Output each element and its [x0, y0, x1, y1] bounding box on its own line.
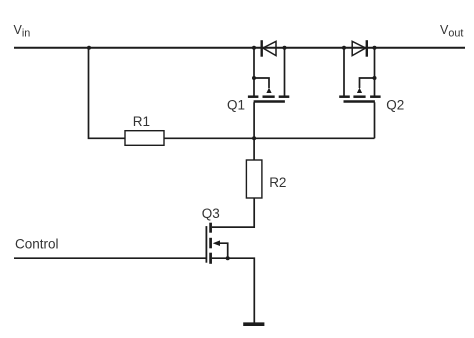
svg-text:R1: R1 [133, 114, 150, 129]
svg-text:Q2: Q2 [386, 98, 404, 113]
svg-text:R2: R2 [269, 175, 286, 190]
svg-text:Q3: Q3 [202, 206, 220, 221]
svg-text:Q1: Q1 [227, 97, 245, 112]
svg-text:Control: Control [15, 237, 59, 252]
svg-text:Vin: Vin [14, 23, 31, 39]
svg-text:Vout: Vout [440, 23, 463, 39]
